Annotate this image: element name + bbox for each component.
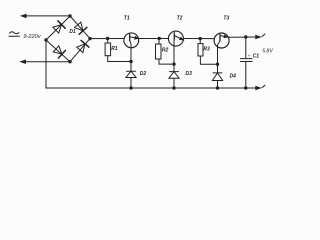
svg-text:R2: R2 [162, 48, 169, 54]
transistor T2 [168, 31, 183, 46]
wire AC input line 2 [22, 61, 71, 63]
svg-text:R3: R3 [203, 47, 210, 53]
wire R3 bottom L to T3 collector node [200, 56, 217, 64]
svg-text:5.8V: 5.8V [262, 49, 273, 55]
diode bridge D1 : edge bottom-right wire [70, 39, 90, 62]
arrow output plus [255, 35, 261, 40]
node R3 tap [199, 37, 202, 40]
wire plus rail segment bridge to T1 [90, 38, 124, 40]
node T3 collector / D4 [216, 62, 219, 65]
wire T1 collector vertical [130, 48, 132, 72]
bridge diode bottom-left [53, 45, 66, 58]
tick at plus arrow tip [262, 34, 265, 37]
svg-text:D3: D3 [186, 71, 193, 77]
diode bridge D1 : edge bottom-left wire [46, 40, 70, 62]
node T1 collector / D2 [129, 60, 132, 63]
wire bottom rail [46, 87, 260, 89]
svg-text:+: + [248, 54, 251, 59]
svg-text:D2: D2 [140, 71, 147, 77]
resistor R3 [198, 44, 203, 56]
transistor T3 [214, 33, 229, 48]
wire T3 collector vertical [217, 48, 219, 73]
svg-text:R1: R1 [111, 46, 118, 52]
svg-text:T1: T1 [124, 15, 130, 21]
svg-text:D1: D1 [69, 29, 76, 35]
svg-text:9-220v: 9-220v [23, 34, 41, 40]
svg-text:C1: C1 [253, 53, 260, 59]
node D2 ground [129, 86, 132, 89]
AC source symbol (sine over line) [10, 32, 19, 34]
node R2 tap [158, 37, 161, 40]
node R1 tap [106, 37, 109, 40]
wire T2 collector vertical [173, 46, 175, 72]
wire R3 top stub [199, 39, 201, 44]
capacitor C1 bottom lead [245, 62, 247, 89]
svg-text:T2: T2 [177, 15, 183, 21]
capacitor C1 top lead [245, 37, 247, 59]
wire R1 top stub [107, 39, 109, 44]
diode bridge D1 : edge top-left wire [46, 16, 70, 40]
resistor R1 [105, 43, 111, 56]
wire R2 bottom L to T2 collector node [159, 59, 174, 64]
node bridge right vertex [88, 37, 91, 40]
diode D4 [212, 73, 222, 88]
svg-text:D4: D4 [230, 74, 237, 80]
node C1 tap [244, 35, 247, 38]
tick at minus arrow tip [262, 85, 265, 87]
capacitor C1 [240, 59, 252, 62]
wire rail T1 to T2 [139, 38, 168, 40]
node bridge top vertex [68, 14, 71, 17]
wire AC input line 1 (top) [22, 15, 70, 17]
node D4 ground [216, 86, 219, 89]
bridge diode bottom-right [76, 40, 89, 53]
diode bridge D1 : edge top-right wire [70, 16, 90, 39]
node bridge bottom vertex [68, 60, 71, 63]
wire minus bus vertical left [45, 40, 47, 88]
bridge diode top-left [52, 21, 65, 34]
wire R1 bottom L to T1 collector node [108, 56, 131, 62]
bridge diode top-right [74, 21, 87, 34]
node T2 collector / D3 [172, 62, 175, 65]
node C1 ground [244, 86, 247, 89]
node bridge left vertex [44, 38, 47, 41]
wire R2 top stub [158, 39, 160, 45]
transistor T1 [124, 33, 139, 48]
wire rail T2 to T3 [183, 38, 214, 40]
arrow AC terminal 1 [20, 14, 27, 19]
arrow AC terminal 2 [19, 59, 26, 64]
diode D3 [169, 72, 179, 88]
diode D2 [126, 71, 136, 88]
arrow output minus [255, 86, 261, 91]
wire output plus line [228, 36, 259, 38]
resistor R2 [156, 44, 162, 59]
svg-text:T3: T3 [223, 15, 229, 21]
node D3 ground [172, 86, 175, 89]
